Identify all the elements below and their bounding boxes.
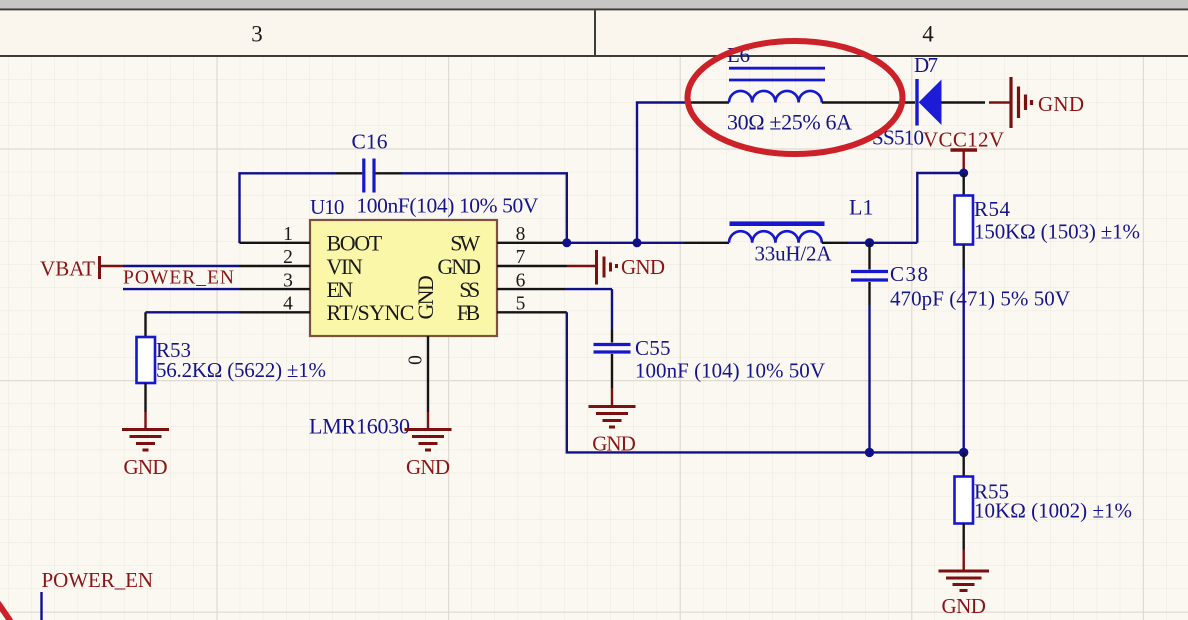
capacitor C38 (851, 243, 1070, 311)
wire net BOOT-SW: C16 loop right (402, 173, 567, 243)
svg-text:8: 8 (516, 224, 526, 245)
wire net FB rail bottom (567, 312, 964, 452)
svg-text:1: 1 (283, 224, 293, 245)
svg-text:C55: C55 (635, 336, 671, 360)
svg-text:6: 6 (516, 270, 526, 291)
svg-text:GND: GND (124, 455, 168, 479)
svg-text:EN: EN (327, 277, 354, 302)
wire net VOUT: L1 to junctions (848, 242, 917, 244)
svg-text:POWER_EN: POWER_EN (123, 268, 234, 289)
junction node SW at C16 (562, 238, 571, 247)
port VBAT (40, 256, 123, 281)
svg-text:470pF (471) 5% 50V: 470pF (471) 5% 50V (890, 287, 1070, 311)
ground symbol right of D7 (rotated) (989, 77, 1084, 128)
svg-text:FB: FB (457, 300, 480, 325)
red annotation arc bottom-left (0, 603, 11, 620)
svg-text:4: 4 (922, 22, 934, 47)
svg-text:10KΩ (1002) ±1%: 10KΩ (1002) ±1% (974, 499, 1132, 523)
red annotation ellipse around L6 (688, 41, 903, 154)
inductor L1 (684, 194, 873, 265)
svg-text:4: 4 (283, 294, 293, 315)
pin 2 VIN (240, 247, 363, 279)
junction node FB/R55 (959, 448, 968, 457)
wire net C38 bottom (868, 305, 870, 452)
pin 1 BOOT (240, 224, 383, 256)
pin 0 GND bottom of U10 (406, 275, 439, 412)
title band (0, 8, 1188, 57)
wire net POWER_EN to EN (123, 288, 240, 290)
inductor L6 ferrite bead (691, 43, 915, 135)
wire riser to L6 (637, 103, 691, 243)
wire net BOOT: C16 loop left (240, 173, 337, 243)
svg-text:7: 7 (516, 247, 526, 268)
power port VCC12V (923, 128, 1004, 174)
svg-text:GND: GND (406, 455, 450, 479)
svg-text:U10: U10 (310, 195, 344, 219)
wire net SS to C55 (565, 288, 612, 290)
svg-text:GND: GND (437, 254, 481, 279)
svg-text:GND: GND (413, 275, 438, 319)
junction node SW at L6 riser (633, 238, 642, 247)
top title band gray strip (0, 0, 1188, 8)
svg-text:0: 0 (406, 355, 427, 365)
ground symbol at pin 7 (rotated) (567, 250, 665, 285)
pin 4 RT/SYNC (240, 294, 415, 326)
svg-text:BOOT: BOOT (327, 231, 383, 256)
svg-text:C38: C38 (890, 262, 928, 286)
svg-text:GND: GND (941, 594, 986, 618)
capacitor C55 (594, 289, 826, 388)
svg-text:RT/SYNC: RT/SYNC (327, 300, 415, 325)
svg-text:D7: D7 (914, 53, 938, 77)
pin 8 SW (450, 224, 566, 256)
svg-text:5: 5 (516, 294, 526, 315)
ground symbol under R53 (122, 412, 169, 479)
svg-text:L1: L1 (849, 194, 873, 219)
svg-text:GND: GND (1038, 92, 1084, 116)
svg-text:VCC12V: VCC12V (923, 128, 1004, 152)
ground symbol under R55 (939, 550, 990, 619)
svg-text:GND: GND (621, 255, 665, 279)
svg-text:3: 3 (283, 270, 293, 291)
svg-text:100nF (104) 10% 50V: 100nF (104) 10% 50V (635, 359, 825, 383)
svg-text:56.2KΩ (5622) ±1%: 56.2KΩ (5622) ±1% (156, 358, 326, 382)
pin 5 FB (457, 294, 567, 326)
svg-text:SW: SW (450, 231, 480, 256)
capacitor C16 (336, 130, 539, 218)
resistor R54 (955, 173, 1141, 268)
junction node FB/C38 (865, 448, 874, 457)
ground symbol under U10 (405, 412, 452, 479)
wire net RT/SYNC to R53 (146, 311, 240, 313)
svg-text:VIN: VIN (327, 254, 363, 279)
svg-text:SS: SS (459, 277, 480, 302)
resistor R53 (137, 312, 327, 412)
wire net VBAT to VIN (123, 265, 240, 267)
pin 7 GND (437, 247, 567, 279)
wire net FB: R54 bottom to FB rail (963, 268, 965, 452)
svg-text:POWER_EN: POWER_EN (42, 568, 154, 592)
op-amp U10 LMR16030 body (309, 195, 497, 439)
svg-text:C16: C16 (352, 130, 388, 154)
svg-text:3: 3 (251, 22, 263, 47)
ground symbol under C55 (589, 388, 636, 456)
svg-text:R54: R54 (974, 197, 1011, 221)
svg-text:30Ω ±25% 6A: 30Ω ±25% 6A (727, 110, 852, 135)
junction node VCC12V (959, 169, 968, 178)
pin 3 EN (240, 270, 354, 302)
svg-text:VBAT: VBAT (40, 257, 95, 281)
wire net VCC12V to riser (917, 173, 963, 243)
resistor R55 (955, 452, 1133, 549)
wire net SW horizontal run (567, 242, 684, 244)
pin 6 SS (459, 270, 565, 302)
svg-text:100nF(104) 10% 50V: 100nF(104) 10% 50V (356, 194, 538, 218)
junction node L1/C38 (865, 238, 874, 247)
svg-text:LMR16030: LMR16030 (309, 414, 410, 439)
svg-text:150KΩ (1503) ±1%: 150KΩ (1503) ±1% (974, 220, 1140, 244)
net label POWER_EN bottom (42, 568, 154, 620)
band divider (594, 10, 596, 55)
svg-text:33uH/2A: 33uH/2A (755, 242, 833, 266)
diode D7 SS510 (872, 53, 985, 150)
svg-text:2: 2 (283, 247, 293, 268)
